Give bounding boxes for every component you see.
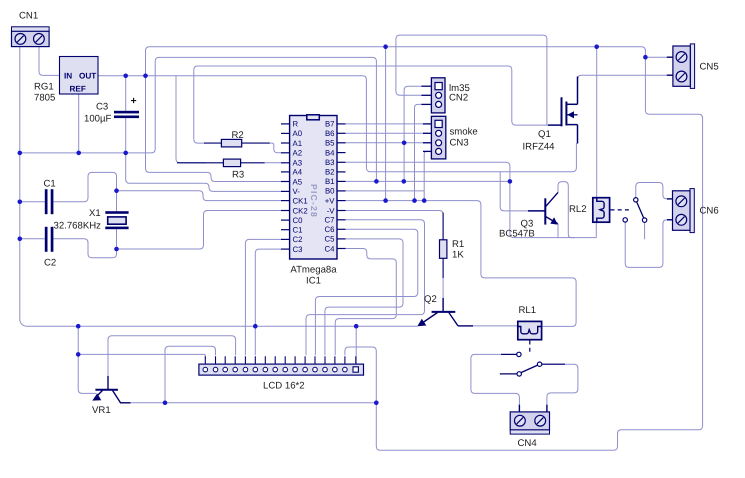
connector CN3 body [431, 116, 445, 159]
transistor Q3 base wire [528, 210, 545, 212]
LCD connector body [199, 364, 364, 375]
op-amp U1 IC1 body [290, 116, 337, 260]
wire C4 to LCD pin14 [335, 249, 396, 356]
svg-text:V-: V- [293, 187, 301, 196]
svg-text:OUT: OUT [79, 72, 96, 81]
LCD square hole [353, 367, 358, 372]
svg-text:A1: A1 [293, 139, 303, 148]
RL1 coil [517, 327, 541, 334]
CN4 pin stubs [519, 405, 547, 412]
connector CN6 strip [690, 189, 694, 233]
LCD pin stubs [205, 356, 355, 364]
svg-text:CN2: CN2 [449, 93, 468, 104]
RL1 pole wire dark part [542, 363, 565, 365]
LCD pin holes [203, 367, 347, 372]
connector CN2 body [431, 78, 445, 113]
capacitor C1 plates [45, 189, 54, 214]
svg-text:RL2: RL2 [569, 204, 587, 215]
wire Q3 collector loop [558, 182, 575, 238]
svg-text:C6: C6 [325, 225, 335, 234]
svg-text:A3: A3 [293, 159, 303, 168]
wire RL1 switch top to CN4 pin1 [471, 354, 520, 412]
transistor Q2 bar [432, 311, 456, 313]
IC1 pin labels [293, 120, 336, 254]
transistor VR1 bar [95, 389, 118, 391]
svg-text:B7: B7 [325, 120, 335, 129]
svg-text:A0: A0 [293, 129, 303, 138]
junction rail LCD6 [253, 324, 258, 329]
relay RL1 body [518, 321, 542, 339]
junction rail LCD16 [354, 324, 359, 329]
crystal X1 bottom plate [105, 227, 128, 230]
svg-text:REF: REF [70, 85, 86, 94]
junction B1 mid tap [402, 179, 407, 184]
svg-text:B6: B6 [325, 129, 335, 138]
wire C3 bottom lead [125, 118, 127, 153]
wire GND to LCD pin1 [78, 354, 205, 357]
CN4 screw 1 [515, 415, 526, 426]
regulator RG1 body [60, 57, 99, 95]
Q2 collector wire dark [458, 325, 473, 327]
connector CN1 body [12, 31, 50, 46]
svg-text:C2: C2 [293, 235, 303, 244]
svg-text:A5: A5 [293, 177, 303, 186]
wire RL2 coil top to +5V [596, 47, 598, 198]
svg-text:R3: R3 [232, 170, 244, 181]
IC1 notch [307, 115, 320, 120]
VR1 collector lead [107, 376, 109, 390]
wire C1 left lead [20, 201, 45, 203]
CN3 pin stubs [423, 124, 431, 151]
svg-text:BC547B: BC547B [499, 229, 535, 240]
CN2 pin stubs [421, 86, 431, 104]
wire emitter node to LCD pin2 [165, 346, 216, 403]
wire VR1 emitter rail [129, 402, 376, 404]
wire LCD pin16 to GND rail [355, 326, 357, 364]
Q1 channel bar [565, 102, 567, 126]
svg-text:1K: 1K [452, 250, 464, 261]
svg-text:C1: C1 [44, 179, 56, 190]
svg-text:-V: -V [327, 206, 336, 215]
Q2 emitter slant [420, 313, 438, 325]
Q2 right slant [449, 313, 458, 326]
svg-text:C7: C7 [325, 216, 335, 225]
svg-text:Q2: Q2 [424, 294, 437, 305]
VR1 emitter wire dark [120, 402, 131, 404]
RL1 switch NC stub [500, 373, 517, 375]
junction B1 GND tap [374, 179, 379, 184]
resistor R2 body [221, 139, 241, 147]
connector CN1 top strip [12, 27, 50, 31]
wire RL2 switch pole stub [644, 222, 646, 239]
wire CN5 bottom to Q1 drain [578, 75, 668, 104]
RL1 switch dashes [529, 341, 531, 354]
wire CN2 pin3 to +V rail [415, 104, 422, 200]
svg-text:+V: +V [325, 196, 336, 205]
wire -V to R1 top [346, 211, 444, 241]
svg-text:R: R [293, 120, 299, 129]
wire +V rail to RL1 right [346, 201, 577, 327]
svg-text:32.768KHz: 32.768KHz [54, 221, 102, 232]
junction C3 +5V [123, 74, 128, 79]
wire +5V top rail loop [146, 47, 703, 451]
junction +V C [422, 198, 427, 203]
relay RL2 body [593, 198, 610, 223]
CN3 round pins [436, 130, 442, 154]
connector CN4 body [510, 412, 549, 430]
svg-text:smoke: smoke [450, 127, 478, 138]
junction B1 Q3 tap [508, 179, 513, 184]
svg-text:B3: B3 [325, 158, 335, 167]
svg-text:B4: B4 [325, 148, 335, 157]
svg-text:CK1: CK1 [293, 196, 308, 205]
svg-text:PIC-28: PIC-28 [309, 184, 319, 218]
wire B5 node to B1 node [403, 143, 405, 182]
svg-text:RL1: RL1 [519, 305, 537, 316]
wire R3 to A3 pin [265, 162, 282, 164]
Q1 drain stub [566, 103, 577, 105]
capacitor C3 plates [114, 111, 139, 118]
junction CN5 tap [643, 55, 648, 60]
junction VR1 pin1 tap [76, 352, 81, 357]
connector CN4 bottom strip [510, 430, 549, 434]
RL1 switch arm [521, 365, 538, 372]
junction +5V top A [383, 44, 388, 49]
svg-text:7805: 7805 [34, 93, 55, 104]
CN3 square pin [435, 120, 442, 127]
wire C1 right to X1 top [53, 172, 116, 201]
junction C1 tap [18, 200, 23, 205]
RL1 switch NC contact [517, 372, 521, 376]
svg-text:B0: B0 [325, 187, 335, 196]
wire B5 to CN3 pin3 [346, 142, 430, 144]
svg-text:A4: A4 [293, 168, 303, 177]
junction emitter LCD2 tap [163, 401, 168, 406]
svg-text:100µF: 100µF [84, 114, 112, 125]
junction C3 GND [123, 151, 128, 156]
resistor R1 leads [442, 213, 444, 279]
svg-text:B2: B2 [325, 168, 335, 177]
wire CN5 top stub wire [645, 56, 667, 58]
wire RL2 coil bottom [595, 222, 597, 237]
wire GND rail to top GND line to B1 [20, 57, 377, 181]
RL1 switch pole contact [537, 362, 541, 366]
wire RG1 OUT +5V to Q1 source line [98, 76, 576, 172]
svg-text:B5: B5 [325, 139, 335, 148]
wire CN3 pin4 to +V rail [424, 151, 429, 200]
transistor Q1 gate wire [548, 124, 562, 126]
VR1 emitter arrow [92, 393, 101, 400]
wire +5V drop to +V pin [385, 47, 387, 201]
Q3 emitter arrow [550, 217, 557, 224]
wire CN2 pin2 to Q1 gate line [396, 35, 547, 125]
RL2 switch arm [637, 202, 644, 218]
svg-text:CN1: CN1 [19, 11, 38, 22]
svg-text:VR1: VR1 [92, 405, 111, 416]
CN5 screw 2 [676, 71, 687, 82]
Q1 body diode arrow [566, 111, 577, 118]
junction +V A [383, 198, 388, 203]
wire B3 to Q3 emitter line [346, 162, 597, 237]
wire VR1 collector to LCD pin4 [108, 336, 236, 378]
VR1 right slant [113, 390, 121, 402]
wire RL2 switch top to CN6 pin1 [636, 183, 673, 199]
junction B5 CN2 tap [402, 141, 407, 146]
CN6 pin stubs [667, 199, 673, 220]
wire CN2 pin1 drop to B5 [404, 86, 421, 143]
junction GND left top [18, 151, 23, 156]
CN6 screw 1 [676, 196, 687, 207]
CN2 round pins [436, 92, 442, 107]
wire B7 to CN3 pin1 [346, 123, 430, 125]
CN5 pin stubs [667, 57, 673, 75]
svg-text:C5: C5 [325, 235, 336, 244]
wire CN1 pin1 to GND rails [20, 47, 418, 327]
Q1 gate bar [561, 97, 563, 126]
junction X1 top node [114, 188, 119, 193]
svg-text:CN6: CN6 [700, 206, 719, 217]
junction emitter loop tap [374, 401, 379, 406]
resistor R1 body [440, 240, 447, 258]
wire R2 net from bus to Q1 gate [194, 66, 549, 143]
RL2 switch dashes [611, 209, 631, 211]
wire LCD pin15 loop [345, 347, 376, 403]
wire Q3 base drop from +5V line [500, 172, 529, 211]
CN6 screw 2 [676, 214, 687, 225]
junction +5V riser [143, 74, 148, 79]
CN1 screw 2 [34, 34, 45, 45]
CN4 screw 2 [535, 415, 546, 426]
wire C2 right to X1 bottom [53, 239, 116, 258]
IC1 pin stubs [281, 124, 346, 249]
wire LCD pin6 to C3 pin [255, 249, 281, 355]
svg-text:C0: C0 [293, 216, 304, 225]
connector CN5 strip [690, 44, 694, 89]
wire R2 to A2 pin [270, 143, 282, 153]
RL2 switch NC contact [623, 218, 627, 222]
resistor R2 leads [204, 142, 270, 144]
svg-text:CN5: CN5 [700, 62, 719, 73]
wire +5V to A5 pin [146, 76, 282, 182]
connector CN6 body [673, 191, 691, 231]
wire X1 top lead [116, 191, 118, 212]
svg-text:ATmega8a: ATmega8a [290, 265, 337, 276]
wire B6 to CN3 pin2 [346, 132, 430, 134]
Q3 emitter [545, 216, 557, 223]
Q1 drain lead [577, 77, 579, 105]
svg-text:C2: C2 [44, 258, 56, 269]
svg-text:C3: C3 [293, 245, 303, 254]
wire X1 top to CK1 [117, 191, 282, 201]
wire C3 top lead [125, 76, 127, 111]
wire RG1 REF to GND [78, 94, 80, 153]
svg-text:CN4: CN4 [518, 438, 538, 449]
junction rail VR1 [76, 324, 81, 329]
wire C7 to LCD pin11 [306, 220, 425, 355]
junction REF GND [76, 151, 81, 156]
wire RL2 switch NC to CN6 pin2 [625, 220, 673, 268]
wire B1 line [346, 180, 510, 182]
capacitor C2 plates [45, 227, 54, 252]
Q2 collector lead [442, 298, 444, 312]
VR1 emitter slant [95, 390, 103, 398]
svg-text:R2: R2 [232, 130, 244, 141]
wire RL1 switch pole to CN4 pin2 [542, 364, 578, 412]
Q3 base bar [544, 198, 546, 224]
CN5 screw 1 [676, 52, 687, 63]
wire CN1 pin2 to RG1 IN [39, 47, 60, 76]
CN1 screw 1 [15, 34, 26, 45]
svg-text:CK2: CK2 [293, 206, 308, 215]
junction C2 tap [18, 237, 23, 242]
Q2 emitter arrow [417, 319, 426, 327]
svg-text:X1: X1 [89, 208, 101, 219]
resistor R3 leads [177, 162, 265, 164]
svg-text:RG1: RG1 [34, 82, 54, 93]
Q3 collector [545, 192, 558, 207]
junction +V B [412, 198, 417, 203]
svg-text:IRFZ44: IRFZ44 [523, 142, 556, 153]
svg-text:+: + [131, 95, 137, 107]
svg-text:Q1: Q1 [538, 129, 551, 140]
wire GND to V- pin [126, 153, 282, 192]
CN2 square pin [435, 83, 442, 90]
crystal X1 body [108, 217, 126, 224]
wire +5V branch to R3 [176, 76, 206, 163]
connector CN5 body [673, 46, 690, 86]
svg-text:B1: B1 [325, 177, 335, 186]
svg-text:IC1: IC1 [306, 276, 321, 287]
Q1 source lead [577, 125, 579, 144]
svg-text:IN: IN [64, 72, 72, 81]
wire B0 line [346, 190, 425, 192]
svg-text:C4: C4 [325, 244, 336, 253]
wire C6 to LCD pin12 [315, 229, 417, 355]
RL2 switch top contact [634, 198, 638, 202]
wire R1 bottom to Q2 [442, 258, 444, 312]
RL2 switch pole contact [642, 218, 646, 222]
wire Q3 emitter drop [557, 224, 559, 238]
svg-text:R1: R1 [452, 239, 464, 250]
wire Q2 collector to RL1 left [471, 325, 518, 327]
svg-text:LCD 16*2: LCD 16*2 [263, 381, 305, 392]
wire GND to VR1 base [78, 326, 96, 393]
junction +5V top B [594, 44, 599, 49]
wire C5 to LCD pin13 [325, 239, 403, 355]
Q1 source stub [566, 124, 577, 126]
crystal X1 top plate [105, 211, 128, 214]
junction X1 bottom node [114, 247, 119, 252]
resistor R3 body [223, 159, 240, 167]
wire X1 bottom to CK2 [117, 211, 282, 250]
svg-text:C3: C3 [96, 102, 108, 113]
svg-text:CN3: CN3 [450, 138, 469, 149]
wire X1 bottom lead [116, 229, 118, 249]
RL1 switch top wire [501, 353, 517, 355]
wire C2 left lead [20, 238, 45, 240]
svg-text:C1: C1 [293, 226, 303, 235]
RL2 coil [597, 198, 604, 223]
svg-text:A2: A2 [293, 149, 303, 158]
wire LCD pin5 to C2 pin [245, 239, 281, 355]
RL1 switch top contact [517, 352, 521, 356]
